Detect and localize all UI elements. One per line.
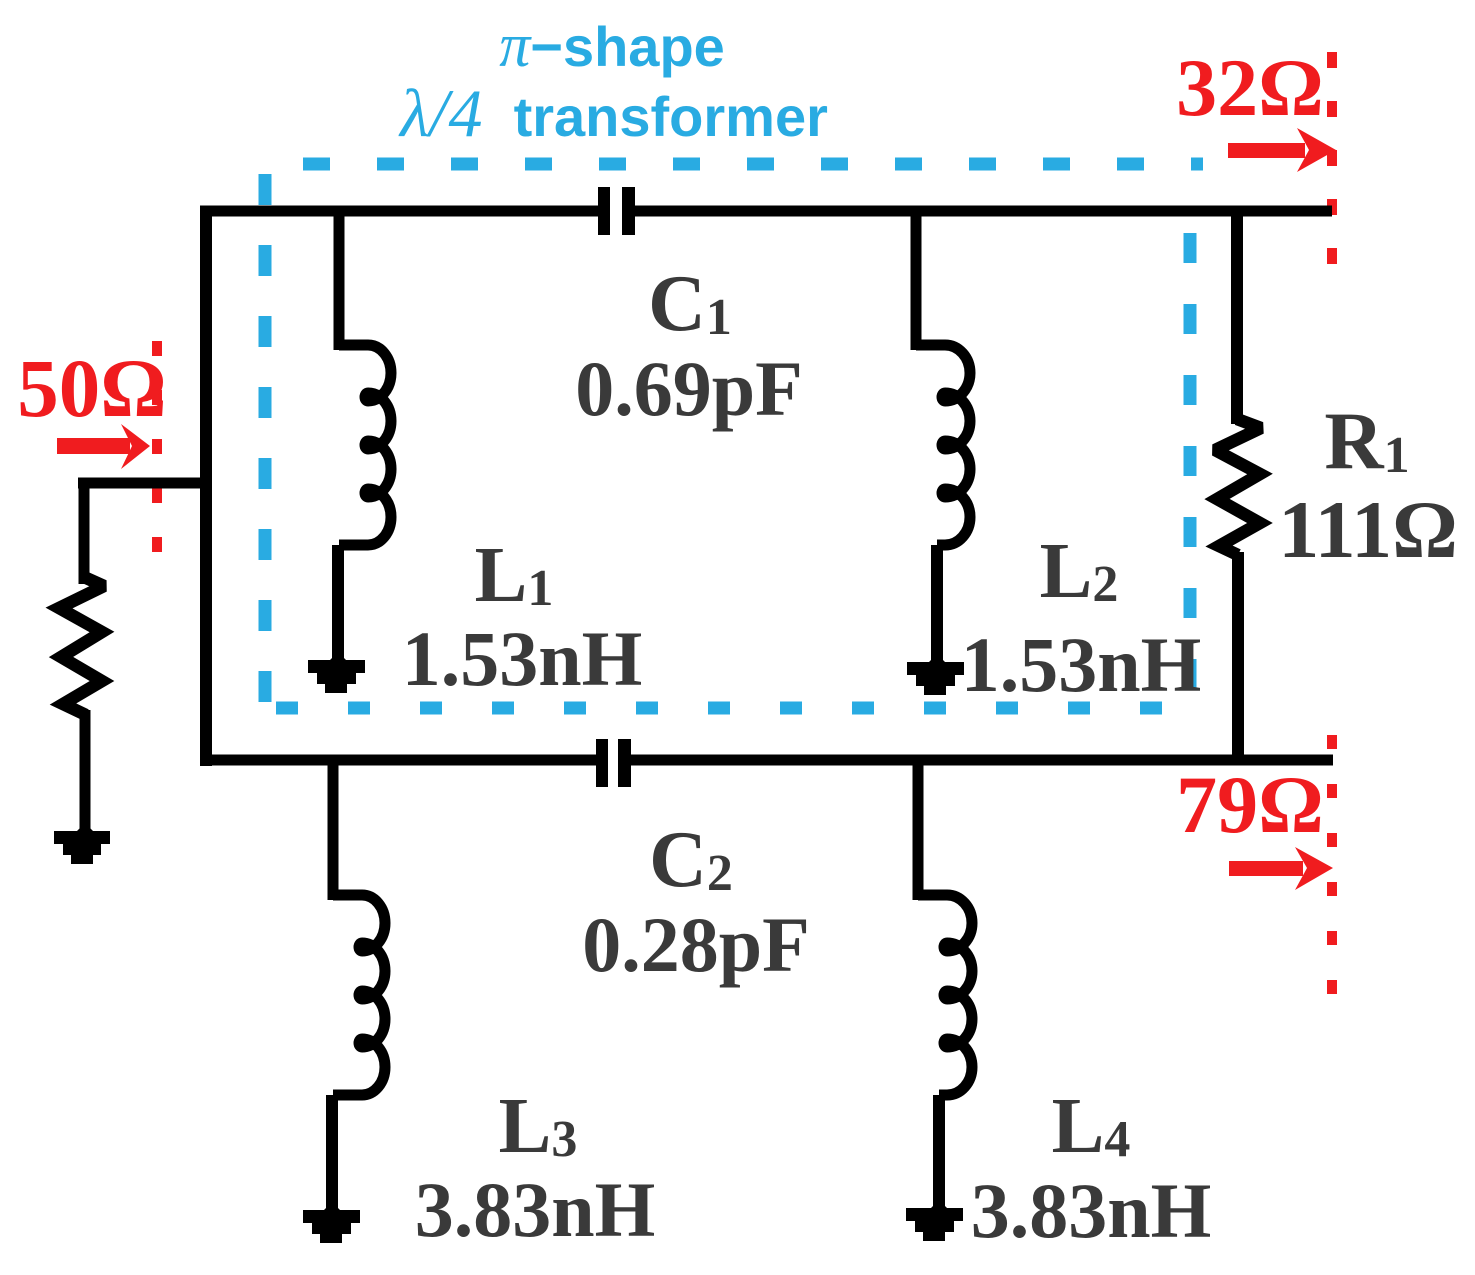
svg-text:λ/4 transformer: λ/4 transformer (398, 75, 828, 151)
svg-text:79Ω: 79Ω (1176, 759, 1324, 850)
wire bottom rail left segment (200, 755, 596, 766)
capacitor C2 right plate (618, 739, 631, 787)
inductor L4 lower wire (933, 1095, 945, 1212)
capacitor C1 right plate (622, 187, 635, 235)
wire top rail right segment (635, 206, 1332, 217)
inductor L2 coil (916, 345, 970, 545)
inductor L2 branch wire (911, 206, 922, 350)
svg-text:1.53nH: 1.53nH (961, 621, 1202, 708)
resistor R1 zigzag (1215, 419, 1261, 555)
inductor L2 lower wire (931, 545, 943, 666)
svg-text:0.69pF: 0.69pF (575, 345, 803, 432)
ground L2 (907, 654, 964, 695)
resistor R1 upper wire (1231, 206, 1243, 424)
svg-text:3.83nH: 3.83nH (415, 1166, 656, 1253)
arrow 79-ohm output (1229, 847, 1333, 890)
svg-text:π−shape: π−shape (499, 12, 725, 80)
inductor L3 coil (333, 895, 385, 1095)
source resistor lower wire (80, 710, 91, 835)
ground L1 (308, 652, 365, 693)
ground L4 (906, 1200, 963, 1241)
arrow 50-ohm input (57, 424, 150, 469)
ground source (54, 823, 110, 864)
node 50-ohm reference plane (red dashed line) (152, 341, 162, 561)
inductor L1 branch wire (334, 206, 345, 350)
svg-text:50Ω: 50Ω (17, 342, 166, 434)
inductor L1 lower wire (332, 545, 344, 664)
pi-shape transformer boundary box bottom edge (276, 702, 1190, 715)
ground L3 (303, 1202, 360, 1243)
wire top rail left segment (200, 206, 598, 217)
capacitor C1 left plate (598, 187, 610, 235)
wire source input horizontal (78, 478, 212, 489)
pi-shape transformer boundary box right edge (1184, 233, 1197, 708)
arrow 32-ohm output (1228, 128, 1336, 172)
inductor L3 lower wire (326, 1095, 338, 1214)
resistor R1 lower wire (1232, 552, 1244, 765)
pi-shape transformer boundary box left edge (259, 174, 272, 708)
capacitor C2 left plate (596, 739, 608, 787)
inductor L1 coil (339, 345, 391, 545)
source resistor 50-ohm zigzag (59, 577, 104, 715)
inductor L4 branch wire (913, 755, 924, 900)
wire left vertical bus (200, 206, 212, 766)
svg-text:1.53nH: 1.53nH (402, 615, 643, 702)
node 32-ohm reference plane (red dashed line) (1327, 52, 1337, 266)
inductor L3 branch wire (328, 755, 339, 900)
svg-text:111Ω: 111Ω (1278, 484, 1458, 575)
source resistor branch wire down (79, 478, 90, 584)
svg-text:3.83nH: 3.83nH (971, 1167, 1212, 1254)
node 79-ohm reference plane (red dashed line) (1327, 735, 1337, 998)
wire bottom rail right segment (631, 755, 1333, 766)
svg-text:0.28pF: 0.28pF (582, 901, 810, 988)
pi-shape transformer boundary box (cyan dashed) top edge (303, 158, 1203, 171)
svg-text:32Ω: 32Ω (1176, 42, 1324, 133)
inductor L4 coil (918, 895, 972, 1095)
